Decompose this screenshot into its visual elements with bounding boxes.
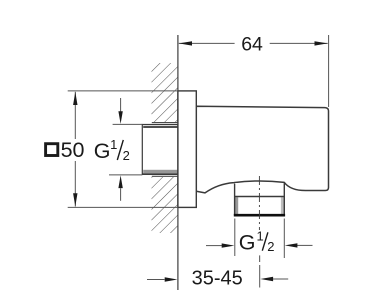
centerline of outlet [258, 176, 260, 230]
square symbol of 50 label [46, 144, 58, 156]
dimension 35-45 arrows [147, 277, 288, 282]
svg-text:64: 64 [241, 33, 263, 55]
wire wall face line [177, 35, 179, 290]
svg-text:2: 2 [123, 148, 130, 163]
wall hatching lower band [152, 175, 178, 234]
bottom G1/2 arrows outside [206, 243, 313, 248]
svg-text:G: G [239, 231, 256, 255]
svg-text:G: G [94, 139, 111, 163]
bottom G1/2 extension right [283, 219, 285, 259]
dimension square-50 extension bottom [68, 206, 178, 208]
node threaded inlet G1/2 nipple [142, 122, 178, 177]
wall hatching upper band [152, 63, 178, 124]
dimension 35-45 right extension (centerline continuation) [259, 265, 261, 288]
svg-text:1: 1 [110, 137, 117, 152]
dimension 64 extension line right [328, 35, 330, 107]
svg-text:2: 2 [267, 239, 274, 254]
bottom G1/2 label [239, 229, 275, 255]
body of wall union [196, 106, 328, 193]
svg-text:50: 50 [61, 138, 85, 162]
dimension 64 line with arrows [179, 41, 328, 45]
svg-text:35-45: 35-45 [192, 267, 243, 289]
svg-text:1: 1 [257, 229, 264, 244]
bottom G1/2 extension left [234, 219, 236, 257]
left G1/2 extension bottom [109, 174, 142, 176]
left G1/2 extension top [113, 123, 143, 125]
left G1/2 arrow upper pointing down [118, 98, 122, 201]
left G1/2 label [94, 137, 130, 163]
dimension square-50 line with arrows [73, 92, 77, 207]
flange plate square 50 [178, 91, 196, 207]
dimension square-50 extension top [68, 90, 178, 92]
bottom outlet connector [234, 183, 285, 216]
